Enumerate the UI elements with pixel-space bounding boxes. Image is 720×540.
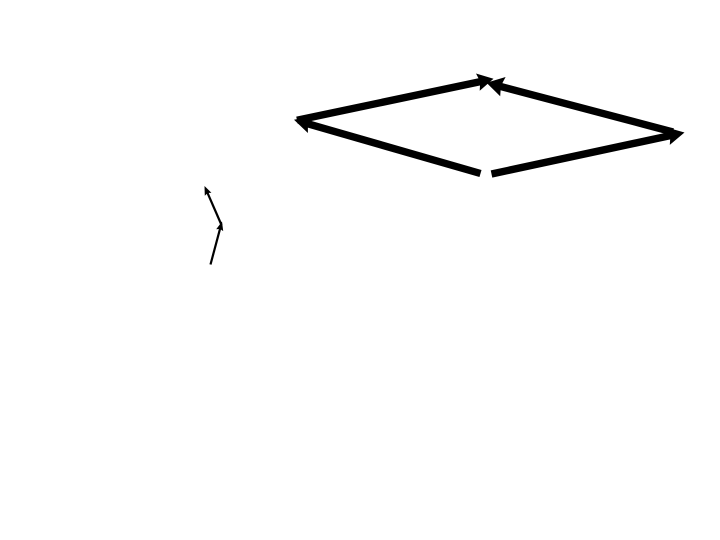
thick vector arrow: right vertex to top vertex [487,77,674,132]
small thin arrow upper, pointing up-left [205,186,222,225]
thick vector arrow: bottom vertex to left vertex [294,116,481,174]
small thin arrow lower, pointing up-right [211,222,224,265]
thick vector arrow: left vertex to top vertex [297,74,494,121]
thick vector arrow: bottom vertex to right vertex [492,127,685,174]
